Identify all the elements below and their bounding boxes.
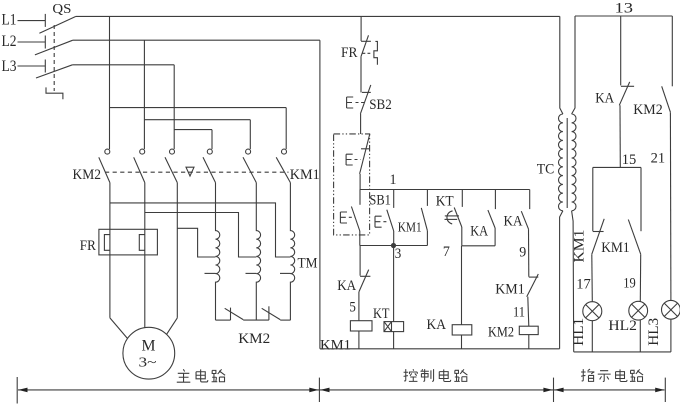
label 控制电路	[404, 369, 468, 381]
svg-text:21: 21	[651, 151, 666, 167]
E- actuator SB2	[347, 97, 366, 108]
indication bottom rail	[574, 351, 671, 353]
KA NO contact (KM2 branch)	[521, 190, 529, 277]
coil KM1	[350, 321, 372, 331]
svg-text:TC: TC	[537, 162, 555, 178]
svg-text:19: 19	[623, 275, 636, 291]
wire L1 lead-in	[18, 20, 46, 22]
dimension tick 2	[318, 378, 320, 402]
transformer TC core	[566, 118, 568, 208]
contactor main contact KM2-a (col4)	[203, 149, 216, 183]
wire FR to SB2	[360, 57, 362, 93]
arrowhead right 1	[309, 388, 318, 393]
wire phase L3 line	[72, 64, 174, 66]
wire KM2 coil to rail	[528, 335, 530, 349]
pushbutton SB1 NO contact	[387, 190, 394, 246]
wire KM1 coil to rail	[358, 331, 360, 349]
wire column4 upper	[211, 130, 213, 150]
wire control feed from L1	[360, 16, 362, 41]
KT delayed contact	[445, 190, 463, 246]
autotransformer TM winding 2	[256, 183, 260, 321]
lamp HL1	[583, 302, 602, 321]
label 指示电路	[581, 369, 643, 381]
wire L2 drop to control rail	[319, 40, 321, 349]
node 3 wire	[360, 245, 428, 247]
svg-text:KM1: KM1	[290, 166, 320, 183]
control circuit bottom rail	[320, 348, 560, 350]
switch QS pole 1	[39, 14, 76, 33]
svg-text:KM2: KM2	[633, 102, 663, 118]
KM1 NC interlock contact	[527, 274, 539, 326]
svg-text:FR: FR	[80, 238, 96, 254]
wire column6 upper	[285, 108, 287, 150]
svg-text:HL1: HL1	[571, 318, 587, 346]
svg-text:1: 1	[390, 172, 397, 188]
KA NC contact (KM1 coil branch)	[359, 246, 371, 321]
TM tap stub 3	[280, 272, 291, 274]
svg-text:KA: KA	[427, 317, 447, 333]
wire column5 upper	[249, 120, 251, 150]
svg-text:KT: KT	[373, 306, 390, 322]
svg-text:L2: L2	[2, 33, 17, 50]
dimension tick 1	[16, 377, 18, 404]
contactor main contact KM2-b (col5)	[243, 149, 256, 183]
KA NO contact (parallel)	[488, 190, 496, 246]
svg-text:KM2: KM2	[238, 330, 270, 347]
wire column3 upper	[173, 65, 175, 149]
svg-text:13: 13	[615, 0, 634, 16]
wire KT coil to rail	[393, 332, 395, 349]
wire to bus1	[359, 174, 361, 190]
dimension tick 4	[664, 378, 666, 402]
svg-text:KM1: KM1	[601, 240, 630, 256]
transformer TC secondary	[572, 16, 576, 352]
wire col1 to TM3 tap	[110, 203, 291, 257]
svg-text:KM1: KM1	[398, 220, 422, 235]
wire phase L2 line	[73, 39, 320, 41]
svg-text:HL2: HL2	[608, 318, 637, 334]
arrowhead right 2	[543, 388, 552, 393]
contactor main contact KM1-a (col1)	[99, 149, 110, 183]
wire bridge right drop	[640, 167, 642, 231]
wire column2 upper	[143, 40, 145, 149]
arrowhead left 1	[18, 388, 27, 393]
KM2 star contact 1	[216, 308, 244, 321]
TM tap stub 2	[246, 272, 257, 274]
svg-text:KA: KA	[504, 213, 523, 229]
KM2 star contact 2	[262, 306, 281, 320]
label 主电路	[177, 369, 225, 382]
wire jumper L3 to col4	[174, 129, 212, 131]
wire motor lead right	[167, 318, 178, 334]
svg-text:17: 17	[576, 277, 591, 293]
FR heater element 2	[139, 235, 145, 251]
svg-text:7: 7	[443, 244, 450, 260]
bus line 1	[360, 189, 530, 191]
QS linkage dashed	[53, 25, 55, 91]
wire HL1 to rail	[591, 321, 593, 352]
svg-text:TM: TM	[298, 255, 318, 271]
svg-text:9: 9	[519, 245, 526, 261]
wire SB2 to box contact	[360, 114, 362, 134]
node 15 bridge	[593, 166, 641, 168]
FR control NC contact	[361, 35, 378, 65]
svg-text:HL3: HL3	[646, 318, 662, 346]
svg-text:L1: L1	[2, 11, 17, 28]
wire jumper L2 to col5	[144, 119, 250, 121]
arrowhead left 3	[554, 388, 563, 393]
main contacts linkage dashed	[105, 171, 289, 173]
arrowhead left 2	[320, 388, 329, 393]
coil KA	[452, 325, 472, 335]
dimension line main	[18, 389, 665, 391]
svg-text:FR: FR	[341, 45, 358, 61]
arrowhead right 3	[655, 388, 664, 393]
wire col2 to TM2 tap	[145, 213, 256, 258]
transformer TC primary	[559, 16, 563, 348]
QS handle	[46, 87, 63, 99]
switch QS pole 2	[35, 36, 73, 55]
svg-text:KM1: KM1	[495, 281, 525, 297]
svg-text:SB1: SB1	[369, 193, 391, 209]
KM1 NO contact (HL2)	[628, 220, 640, 302]
wire phase L1 top line	[76, 15, 560, 17]
contactor main contact KM2-c (col6)	[276, 149, 290, 183]
boxed NO contact branch	[351, 190, 360, 246]
KM2 NO contact (indication)	[662, 16, 673, 301]
switch QS pole 3	[36, 60, 72, 79]
wire column2 lower	[144, 183, 146, 328]
wire L3 lead-in	[18, 65, 46, 67]
lamp HL2	[629, 301, 648, 320]
svg-text:KT: KT	[436, 194, 454, 210]
svg-text:KM2: KM2	[73, 166, 102, 183]
KM1 aux NO contact (self-hold)	[421, 190, 427, 246]
node 7 wire	[462, 245, 495, 247]
svg-text:5: 5	[349, 300, 356, 316]
coil KT with X element	[384, 322, 404, 332]
svg-text:KA: KA	[595, 91, 614, 107]
bus line 13	[575, 15, 672, 17]
wire KA coil branch	[461, 246, 463, 325]
motor M circle	[123, 327, 175, 379]
button unit dash-dot box	[334, 134, 370, 235]
wire star bar right	[280, 319, 290, 321]
wire KT coil branch	[393, 246, 395, 322]
svg-text:KM1: KM1	[320, 337, 351, 353]
FR heater element 1	[104, 235, 110, 251]
pushbutton SB2 NC contact	[360, 85, 370, 114]
svg-text:KA: KA	[470, 223, 488, 239]
boxed NC contact	[360, 134, 370, 174]
svg-text:KM1: KM1	[572, 230, 588, 263]
wire HL2 to rail	[639, 320, 641, 352]
wire column1 lower	[109, 183, 111, 318]
thermal relay FR box	[99, 229, 157, 255]
mechanical interlock triangle	[186, 167, 194, 176]
svg-text:3~: 3~	[139, 356, 158, 371]
wire KA coil to rail	[461, 335, 463, 349]
wire bridge left drop	[592, 167, 594, 231]
wire star bar mid	[243, 319, 269, 321]
svg-text:L3: L3	[2, 58, 17, 75]
svg-text:SB2: SB2	[369, 97, 392, 113]
E- actuator SB1	[375, 216, 389, 227]
autotransformer TM winding 1	[216, 183, 220, 321]
contactor main contact KM1-b (col2)	[134, 149, 145, 183]
wire col3 to TM1 tap	[177, 228, 215, 257]
svg-text:KA: KA	[337, 278, 356, 294]
svg-text:QS: QS	[52, 2, 71, 17]
wire motor lead left	[110, 318, 128, 339]
svg-text:15: 15	[622, 152, 637, 168]
E- actuator boxed NC	[346, 154, 360, 165]
KA NC contact (indication)	[619, 16, 634, 167]
wire jumper L1 to col6	[110, 107, 287, 109]
svg-text:3: 3	[395, 246, 402, 262]
lamp HL3	[662, 300, 680, 319]
wire HL3 to rail	[670, 319, 672, 352]
wire L2 lead-in	[18, 41, 46, 43]
svg-text:11: 11	[513, 305, 525, 321]
KM1 NC contact (HL1)	[592, 219, 604, 302]
svg-text:M: M	[142, 338, 156, 355]
autotransformer TM winding 3	[290, 183, 294, 321]
coil KM2	[519, 326, 538, 334]
junction dot node 3	[391, 243, 396, 248]
E- actuator boxed NO	[340, 212, 354, 223]
wire column3 lower	[176, 183, 178, 318]
contactor main contact KM1-c (col3)	[165, 149, 177, 183]
TM tap stub 1	[205, 272, 216, 274]
dimension tick 3	[553, 378, 555, 402]
wire column1 upper	[109, 16, 111, 149]
svg-text:KM2: KM2	[488, 325, 514, 341]
